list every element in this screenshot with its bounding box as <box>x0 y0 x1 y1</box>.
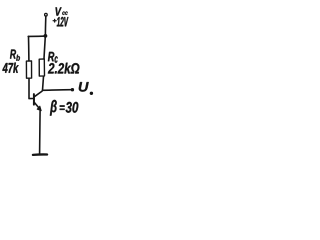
label eq <box>60 105 65 110</box>
label Rc c <box>55 56 58 63</box>
node junction dot <box>44 34 48 38</box>
label Rc R <box>48 52 54 61</box>
resistor Rb <box>26 61 31 78</box>
wire emitter to ground <box>39 111 42 153</box>
label 47k <box>2 63 18 73</box>
wire Rb top <box>28 36 30 60</box>
transistor Q1 base bar <box>33 94 35 105</box>
transistor Q1 collector stroke <box>34 91 42 97</box>
label Rb R <box>10 50 16 59</box>
resistor Rc <box>39 59 44 76</box>
Vcc terminal <box>45 13 48 16</box>
label 12V <box>57 17 69 27</box>
label plus <box>53 19 57 22</box>
wire output <box>43 89 72 92</box>
wire Vcc terminal to junction <box>44 17 46 36</box>
node output dot <box>71 88 74 91</box>
wire Rc top <box>44 36 45 59</box>
label Vcc V <box>56 7 62 15</box>
label Rb b <box>16 55 20 61</box>
transistor Q1 emitter stroke <box>34 102 39 109</box>
label U <box>79 82 89 92</box>
label beta <box>50 100 57 116</box>
transistor Q1 emitter arrowhead <box>37 106 41 111</box>
wire Rc bottom to collector node <box>43 76 44 90</box>
wire top horizontal bar <box>28 35 45 37</box>
wire Rb bottom to base <box>29 78 33 98</box>
label 22kOhm <box>48 63 80 74</box>
label 30 <box>66 102 79 113</box>
label Vcc cc <box>62 12 67 15</box>
ground <box>33 153 47 156</box>
label Ua subscript dot <box>90 92 93 95</box>
